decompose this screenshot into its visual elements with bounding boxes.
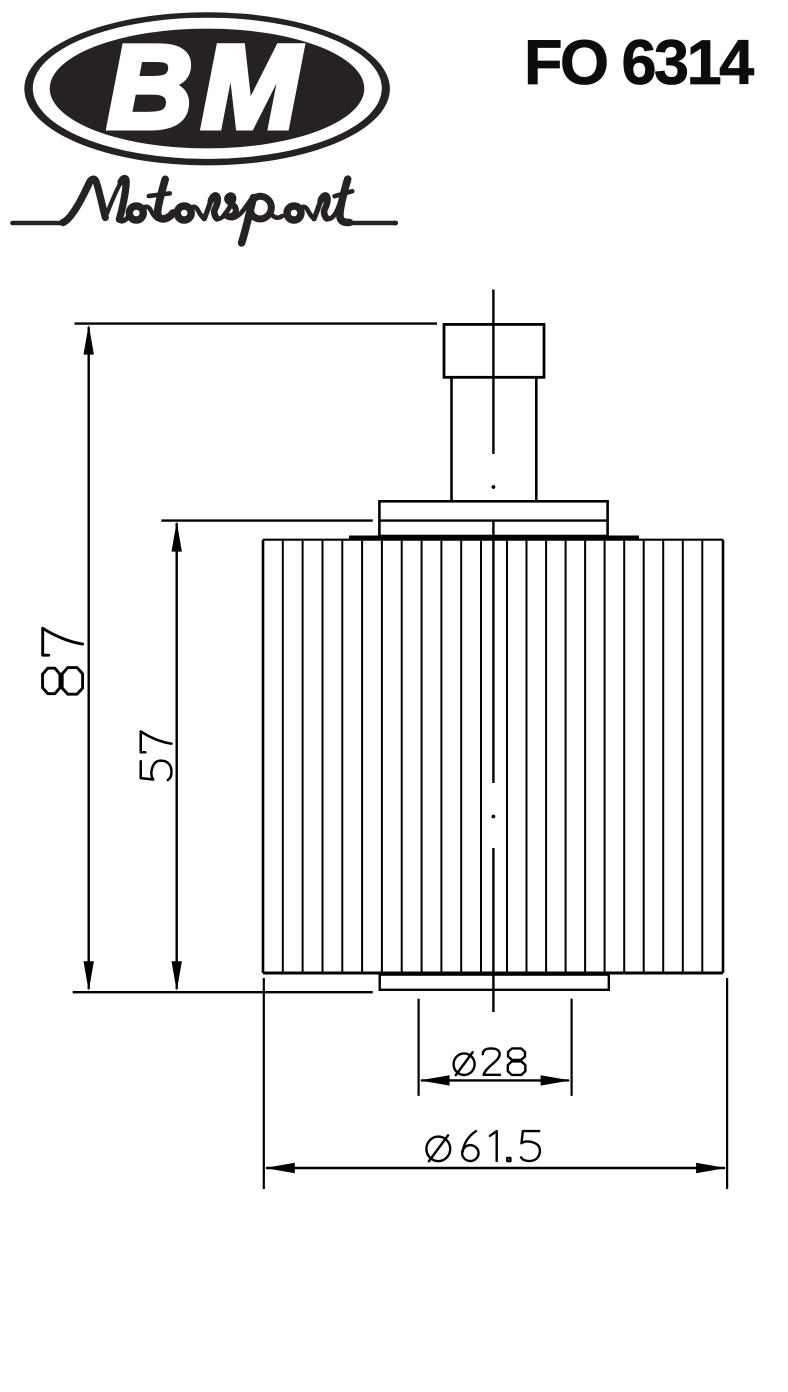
filter body outline bbox=[263, 540, 723, 973]
pleats bbox=[283, 541, 703, 972]
flange bbox=[379, 501, 607, 536]
logo script Motorsport with underline bbox=[13, 178, 397, 242]
dimension 87 bbox=[73, 324, 437, 993]
neck bbox=[452, 377, 537, 502]
dimension text 57 bbox=[141, 731, 172, 780]
dimension o28 bbox=[419, 999, 572, 1096]
dimension o61.5 bbox=[264, 978, 727, 1189]
logo text BM bbox=[107, 22, 309, 154]
seam (top gasket) bbox=[349, 535, 639, 539]
svg-text:BM: BM bbox=[107, 22, 309, 154]
logo outer ellipse ring bbox=[24, 12, 390, 165]
part number FO 6314 bbox=[524, 28, 754, 98]
top cap (thread nipple) bbox=[444, 324, 544, 377]
dimension text o28 bbox=[454, 1048, 526, 1075]
dimension text 87 bbox=[43, 628, 83, 694]
centerline bbox=[492, 290, 496, 1013]
dimension text o61.5 bbox=[426, 1131, 540, 1161]
dimension 57 bbox=[161, 521, 372, 992]
logo inner filled ellipse bbox=[50, 29, 365, 149]
bottom cap bbox=[380, 975, 609, 990]
svg-text:FO 6314: FO 6314 bbox=[524, 28, 754, 98]
